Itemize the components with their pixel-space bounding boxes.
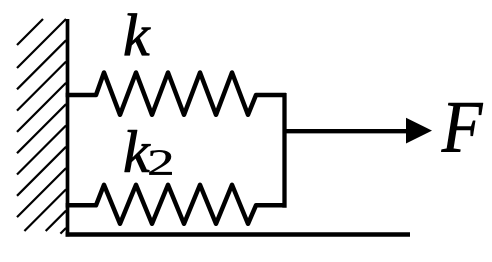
bottom ground line	[66, 232, 411, 236]
arrowhead	[406, 118, 432, 144]
spring k2 (bottom)	[66, 185, 287, 224]
spring k (top)	[66, 73, 287, 115]
label F	[441, 103, 483, 151]
label k2	[125, 130, 151, 172]
label k2 subscript 2	[149, 150, 171, 174]
wall hatching	[17, 19, 66, 234]
arrow line	[285, 129, 409, 133]
label k	[125, 14, 151, 56]
wall line	[66, 19, 70, 237]
right bar	[282, 93, 286, 208]
